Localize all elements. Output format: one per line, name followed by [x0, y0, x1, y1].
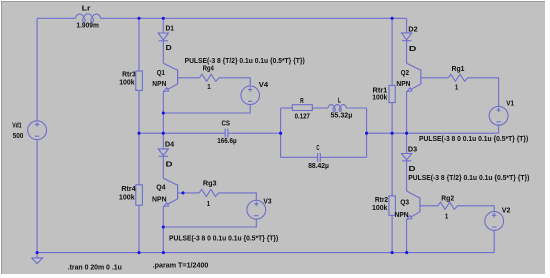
svg-text:0.127: 0.127 [295, 114, 310, 121]
wire bottom branch left [281, 156, 318, 158]
junction bottom rail / Q4 emitter [162, 251, 165, 254]
wire mid rail left of CS [139, 132, 225, 134]
svg-text:Rg3: Rg3 [203, 181, 217, 188]
wire top branch left [281, 107, 293, 109]
svg-text:Rtr3: Rtr3 [122, 72, 136, 79]
wire D2 to Q2 collector [406, 41, 408, 64]
junction mid rail / Q2-D3 [405, 132, 408, 135]
wire top rail from Vd1 to Lr [37, 17, 75, 19]
wire L to right riser [346, 107, 366, 109]
wire Q4 emitter vertical [162, 207, 164, 253]
svg-text:NPN: NPN [152, 197, 167, 204]
svg-text:1.909m: 1.909m [76, 23, 99, 30]
inductor L [328, 105, 346, 108]
resistor Rg2 [438, 202, 458, 209]
resistor Rg3 [199, 189, 219, 196]
wire Q3 base lead [420, 205, 438, 207]
junction mid rail / Q1-D4 [162, 132, 165, 135]
junction V3 return / Q4 emitter [162, 225, 165, 228]
junction node B [365, 132, 368, 135]
junction bottom rail / Rtr4 [137, 251, 140, 254]
svg-text:1: 1 [207, 201, 210, 208]
svg-text:166.6µ: 166.6µ [217, 138, 236, 145]
diode D1 [158, 33, 168, 40]
wire Rtr3 top lead [138, 18, 140, 71]
svg-text:Rtr2: Rtr2 [375, 197, 388, 204]
junction mid rail / Rtr columns left [137, 132, 140, 135]
svg-text:V3: V3 [263, 199, 271, 206]
junction Q4 base [181, 191, 184, 194]
svg-text:D1: D1 [166, 26, 175, 33]
svg-text:100k: 100k [119, 80, 135, 87]
wire R to L [312, 107, 328, 109]
voltage source V1 [489, 106, 508, 125]
resistor Rg1 [448, 74, 468, 81]
junction top rail / Rtr3 [137, 17, 140, 20]
wire Rtr2 top lead [391, 133, 393, 196]
junction bottom rail / Rtr2 [391, 251, 394, 254]
svg-text:.param T=1/2400: .param T=1/2400 [153, 263, 209, 270]
wire top rail from Lr to right corner [101, 17, 407, 19]
wire bottom branch right [320, 156, 366, 158]
wire Rg1 to V1 [468, 78, 499, 107]
svg-text:1: 1 [455, 84, 458, 91]
diode D2 [402, 33, 412, 40]
svg-text:R: R [300, 98, 304, 105]
resistor Rg4 [199, 74, 219, 81]
diode D3 [402, 154, 412, 160]
diode D4 [158, 149, 168, 156]
resistor Rtr4 body [136, 185, 143, 205]
svg-text:Rg1: Rg1 [452, 66, 465, 73]
wire left riser node A [280, 108, 282, 157]
wire V2 bottom lead [493, 230, 495, 252]
svg-text:Rtr1: Rtr1 [373, 87, 388, 94]
inductor Lr [76, 14, 101, 18]
svg-text:Lr: Lr [82, 6, 91, 13]
wire D4 top lead [162, 133, 164, 149]
ground symbol [32, 253, 43, 264]
resistor R body [292, 105, 312, 111]
wire Rtr2 bottom lead [391, 215, 393, 252]
wire mid rail CS to node [228, 132, 281, 134]
svg-text:NPN: NPN [395, 212, 409, 219]
svg-text:C: C [316, 145, 319, 152]
wire Q4 base lead [178, 192, 200, 194]
wire bottom rail [37, 252, 494, 254]
svg-text:NPN: NPN [152, 81, 166, 88]
wire D3 to Q3 collector [406, 161, 408, 191]
svg-text:500: 500 [13, 133, 24, 140]
wire Rtr3 bottom lead [138, 90, 140, 133]
svg-text:V1: V1 [506, 100, 514, 107]
junction bottom rail / ground [36, 251, 39, 254]
wire V1 bottom lead [498, 125, 500, 133]
svg-text:55.32µ: 55.32µ [331, 113, 353, 120]
svg-text:Q3: Q3 [400, 200, 409, 207]
wire Rg3 to V3 [219, 193, 257, 200]
svg-text:Q1: Q1 [157, 70, 165, 77]
transistor Q4 [163, 178, 177, 185]
svg-text:D: D [409, 46, 417, 53]
svg-text:D2: D2 [408, 26, 417, 33]
resistor Rtr1 body [389, 85, 395, 102]
wire Q1 emitter vertical [162, 92, 164, 134]
junction bottom rail / Q3 emitter [405, 251, 408, 254]
wire Q2 emitter vertical [406, 92, 408, 134]
wire V3 return [163, 219, 256, 227]
svg-text:100k: 100k [372, 95, 387, 102]
wire D1 top lead [162, 18, 164, 33]
capacitor C [318, 153, 321, 162]
svg-text:100k: 100k [119, 195, 135, 202]
voltage source Vd1 [28, 121, 47, 140]
svg-text:NPN: NPN [396, 81, 410, 88]
svg-text:Vd1: Vd1 [12, 123, 22, 130]
wire right riser node B [366, 108, 368, 157]
wire Rtr4 top lead [138, 133, 140, 185]
wire top rail corner to D2 [406, 18, 408, 33]
wire mid rail right segment [367, 132, 499, 134]
wire Q1 base lead [178, 77, 200, 79]
wire Vd1 bottom lead [36, 140, 38, 253]
svg-text:Q4: Q4 [156, 185, 165, 192]
junction mid rail / Rtr1 bottom [391, 132, 394, 135]
svg-text:88.42µ: 88.42µ [308, 163, 329, 170]
voltage source V4 [241, 86, 260, 105]
wire Rtr1 bottom lead [391, 103, 393, 134]
svg-text:V4: V4 [259, 82, 268, 89]
resistor Rtr3 body [136, 71, 143, 90]
svg-text:PULSE(-3 8 0 0.1u 0.1u {0.5*T}: PULSE(-3 8 0 0.1u 0.1u {0.5*T} {T}) [419, 136, 528, 143]
wire D1 to Q1 collector [162, 41, 164, 63]
svg-text:D: D [166, 45, 172, 52]
voltage source V2 [485, 212, 504, 231]
svg-text:D: D [409, 166, 416, 173]
svg-text:D: D [166, 161, 173, 168]
junction node A [279, 132, 282, 135]
svg-text:V2: V2 [502, 208, 511, 215]
junction top rail / Rtr1 [391, 17, 394, 20]
wire Q2 base lead [421, 77, 448, 79]
svg-text:D3: D3 [408, 147, 417, 154]
svg-text:L: L [338, 98, 342, 105]
wire Rtr4 bottom lead [138, 205, 140, 252]
junction V4 return / Q1 emitter [162, 111, 165, 114]
transistor Q1 [163, 63, 177, 70]
svg-text:CS: CS [222, 121, 231, 128]
svg-text:PULSE(-3 8 {T/2} 0.1u 0.1u {0.: PULSE(-3 8 {T/2} 0.1u 0.1u {0.5*T} {T}) [408, 175, 529, 182]
svg-text:D4: D4 [165, 142, 174, 149]
capacitor CS [225, 129, 228, 138]
svg-text:1: 1 [445, 214, 448, 221]
svg-text:Rtr4: Rtr4 [121, 186, 135, 193]
wire Rtr1 top lead [391, 18, 393, 85]
svg-text:Rg2: Rg2 [441, 195, 454, 202]
svg-text:PULSE(-3 8 0 0.1u 0.1u {0.5*T}: PULSE(-3 8 0 0.1u 0.1u {0.5*T} {T}) [169, 236, 278, 243]
svg-text:.tran 0 20m 0 .1u: .tran 0 20m 0 .1u [68, 264, 122, 271]
transistor Q2 [407, 63, 421, 70]
svg-text:1: 1 [207, 84, 210, 91]
svg-text:Q2: Q2 [401, 70, 409, 77]
wire Q3 emitter vertical [406, 220, 408, 253]
svg-text:PULSE(-3 8 {T/2} 0.1u 0.1u {0.: PULSE(-3 8 {T/2} 0.1u 0.1u {0.5*T} {T}) [185, 58, 305, 65]
voltage source V3 [247, 200, 266, 219]
wire Vd1 top lead [36, 18, 38, 121]
wire Rg2 to V2 [458, 206, 495, 212]
svg-text:Rg4: Rg4 [203, 65, 214, 72]
wire D4 to Q4 collector [162, 156, 164, 178]
svg-text:100k: 100k [372, 205, 387, 212]
wire D3 top lead [406, 133, 408, 153]
transistor Q3 [407, 191, 420, 198]
wire V4 return [163, 105, 250, 113]
junction top rail / D1 [162, 17, 165, 20]
wire Rg4 to V4 [219, 78, 250, 86]
resistor Rtr2 body [389, 196, 396, 215]
